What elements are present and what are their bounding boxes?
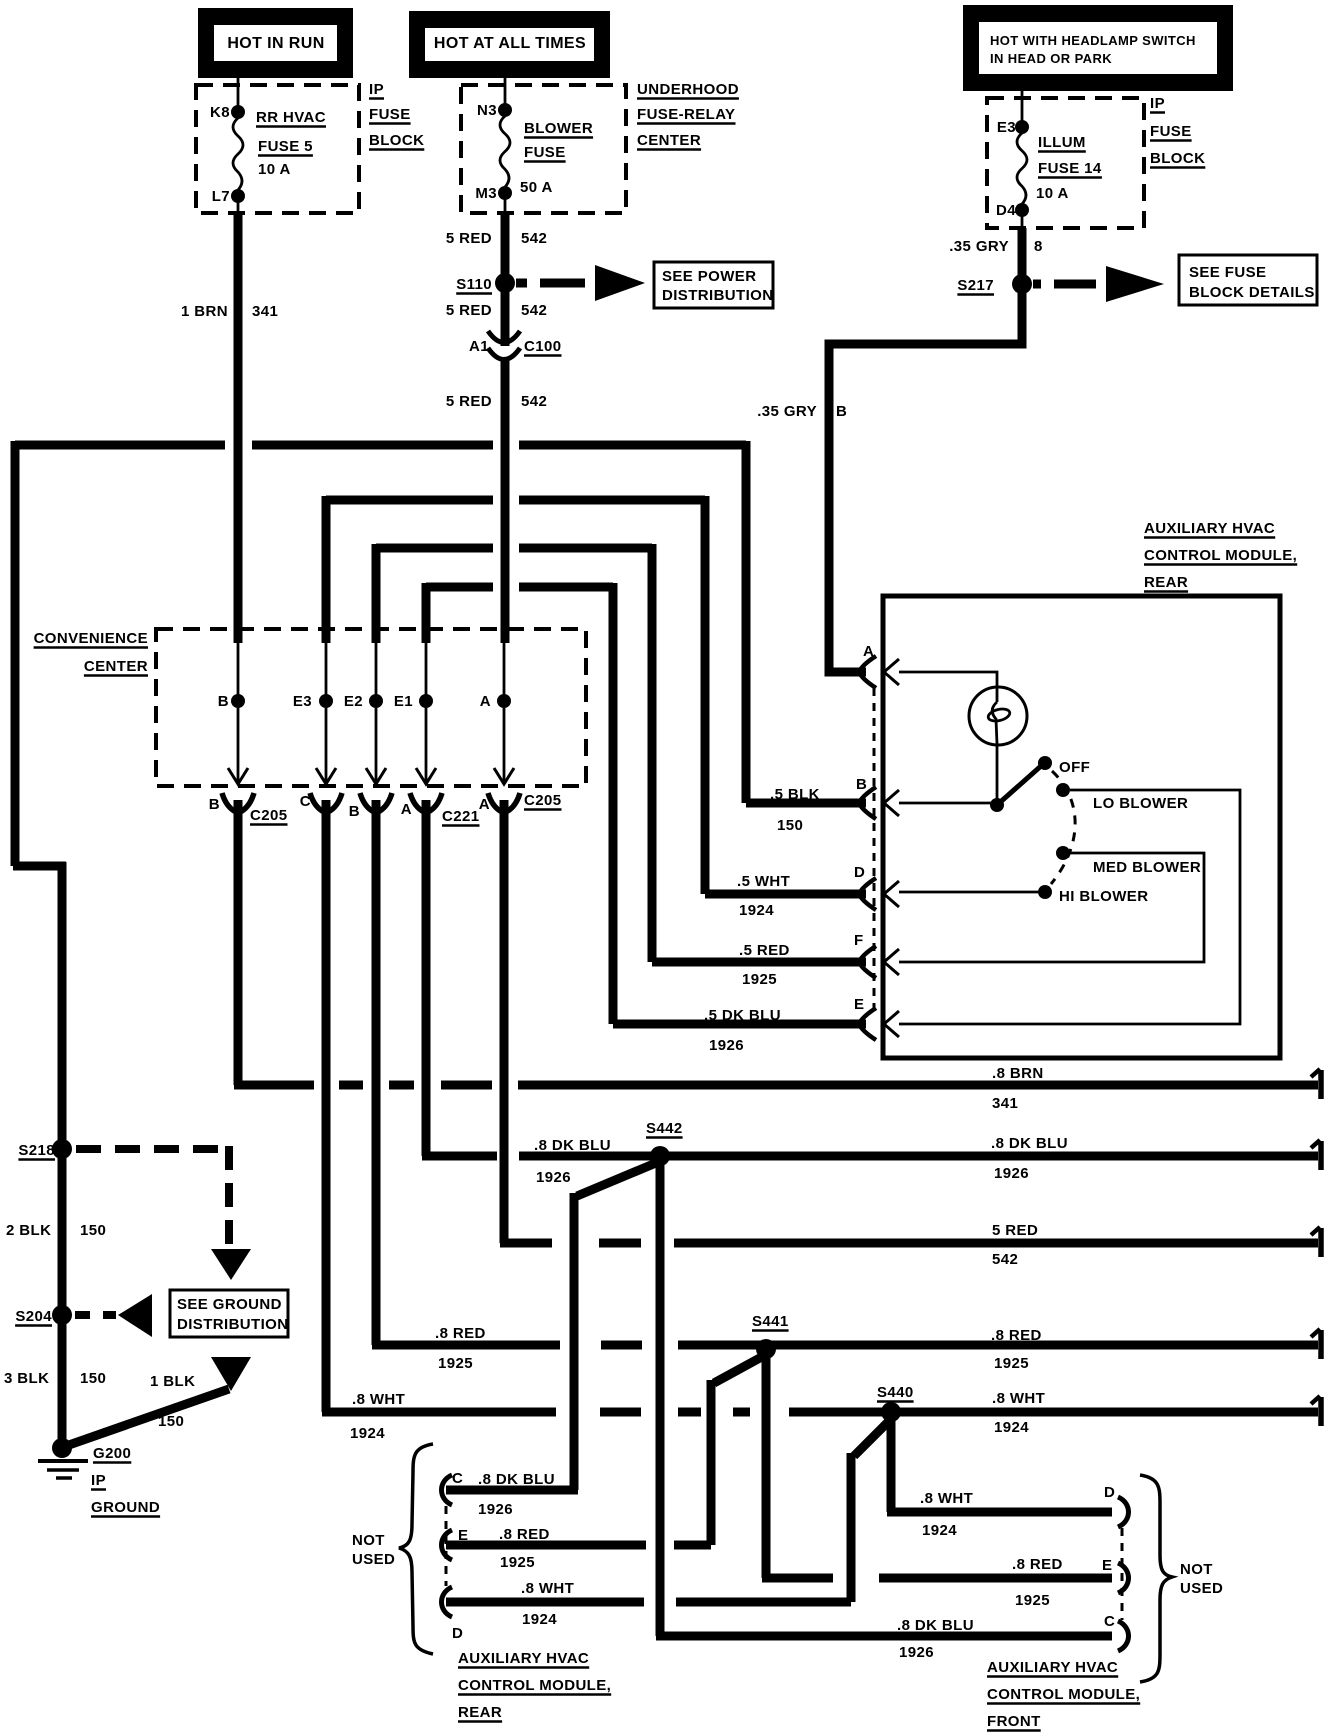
svg-text:.8 DK BLU: .8 DK BLU <box>897 1617 974 1634</box>
svg-text:.8 DK BLU: .8 DK BLU <box>478 1471 555 1488</box>
power box HOT AT ALL TIMES <box>409 11 610 78</box>
dashed wire S217 to arrow <box>1033 280 1041 289</box>
wire stub .5 BLK to pin B <box>746 799 866 808</box>
svg-text:S218: S218 <box>18 1142 55 1159</box>
svg-text:BLOWER: BLOWER <box>524 120 593 137</box>
power box HOT WITH HEADLAMP SWITCH IN HEAD OR PARK <box>963 5 1233 91</box>
svg-text:1925: 1925 <box>1015 1592 1050 1609</box>
svg-text:542: 542 <box>521 302 547 319</box>
svg-text:1 BLK: 1 BLK <box>150 1373 195 1390</box>
svg-text:1925: 1925 <box>742 971 777 988</box>
dashed pin rail <box>873 688 876 1008</box>
svg-text:B: B <box>218 693 229 710</box>
svg-text:B: B <box>836 403 847 420</box>
svg-text:HOT AT ALL TIMES: HOT AT ALL TIMES <box>434 35 586 52</box>
wire right drop to pin B <box>742 441 751 803</box>
svg-text:DISTRIBUTION: DISTRIBUTION <box>662 287 773 304</box>
wire S442 drop to front pin C <box>656 1161 665 1636</box>
wire rear pin C .8 DK BLU <box>446 1486 578 1495</box>
svg-text:E2: E2 <box>344 693 363 710</box>
svg-text:CENTER: CENTER <box>637 132 701 149</box>
wire .8 DK BLU 1926 <box>422 1152 497 1161</box>
svg-text:GROUND: GROUND <box>91 1499 160 1516</box>
svg-text:BLOCK: BLOCK <box>369 132 424 149</box>
svg-text:HOT WITH HEADLAMP SWITCH: HOT WITH HEADLAMP SWITCH <box>990 33 1196 48</box>
wire ground bus horizontal y=445 <box>15 441 225 450</box>
svg-text:.35 GRY: .35 GRY <box>757 403 817 420</box>
svg-text:FUSE: FUSE <box>524 144 566 161</box>
svg-text:ILLUM: ILLUM <box>1038 134 1086 151</box>
wire pin A to bulb <box>899 672 997 702</box>
svg-text:.8 RED: .8 RED <box>1012 1556 1063 1573</box>
svg-text:FUSE 14: FUSE 14 <box>1038 160 1102 177</box>
svg-text:MED BLOWER: MED BLOWER <box>1093 859 1201 876</box>
svg-text:S442: S442 <box>646 1120 683 1137</box>
wire S442 diagonal to x574 <box>577 1160 663 1196</box>
node B in convenience center <box>237 643 240 701</box>
svg-text:USED: USED <box>1180 1580 1223 1597</box>
svg-text:1924: 1924 <box>522 1611 557 1628</box>
svg-text:341: 341 <box>992 1095 1018 1112</box>
svg-text:D: D <box>1104 1484 1115 1501</box>
svg-text:E3: E3 <box>293 693 312 710</box>
wire D4 to box edge <box>1021 210 1024 228</box>
svg-text:A: A <box>863 643 874 660</box>
svg-text:.5 WHT: .5 WHT <box>737 873 790 890</box>
pin M3 <box>498 186 512 200</box>
svg-text:S204: S204 <box>15 1308 52 1325</box>
bulb <box>969 687 1027 745</box>
svg-text:IN HEAD OR PARK: IN HEAD OR PARK <box>990 51 1112 66</box>
pin K8 <box>231 105 245 119</box>
svg-text:CONTROL MODULE,: CONTROL MODULE, <box>987 1686 1140 1703</box>
svg-text:2 BLK: 2 BLK <box>6 1222 51 1239</box>
svg-text:150: 150 <box>158 1413 184 1430</box>
svg-text:.8 BRN: .8 BRN <box>992 1065 1044 1082</box>
svg-text:1925: 1925 <box>500 1554 535 1571</box>
svg-text:REAR: REAR <box>458 1704 502 1721</box>
svg-text:C: C <box>1104 1613 1115 1630</box>
svg-text:E3: E3 <box>997 119 1016 136</box>
svg-text:.5 BLK: .5 BLK <box>770 786 820 803</box>
svg-text:.35 GRY: .35 GRY <box>949 238 1009 255</box>
wire stub .5 RED to pin F <box>652 958 866 967</box>
dashed rear pin rail <box>445 1506 448 1586</box>
wire rear pin D .8 WHT <box>446 1598 644 1607</box>
svg-text:1 BRN: 1 BRN <box>181 303 228 320</box>
arrow to SEE POWER DISTRIBUTION <box>595 265 645 301</box>
front pin D <box>1118 1497 1129 1527</box>
svg-text:S441: S441 <box>752 1313 789 1330</box>
svg-text:150: 150 <box>80 1370 106 1387</box>
pin N3 <box>498 103 512 117</box>
connector C221 pin A <box>410 793 424 812</box>
svg-text:C205: C205 <box>250 807 287 824</box>
splice S110 <box>495 273 515 293</box>
wire A column down <box>422 800 431 1156</box>
svg-text:BLOCK: BLOCK <box>1150 150 1205 167</box>
node A in convenience center <box>503 643 506 701</box>
switch contact HI <box>1038 885 1052 899</box>
svg-text:341: 341 <box>252 303 278 320</box>
svg-text:CENTER: CENTER <box>84 658 148 675</box>
wire S441 diagonal to x711 <box>714 1353 769 1383</box>
switch contact LO <box>1056 783 1070 797</box>
svg-text:1926: 1926 <box>899 1644 934 1661</box>
svg-text:SEE FUSE: SEE FUSE <box>1189 264 1266 281</box>
svg-text:.8 WHT: .8 WHT <box>992 1390 1045 1407</box>
svg-text:A: A <box>480 693 491 710</box>
svg-text:C: C <box>300 793 311 810</box>
connector C100 A1 <box>488 331 520 343</box>
svg-text:BLOCK DETAILS: BLOCK DETAILS <box>1189 284 1315 301</box>
splice S204 <box>52 1305 72 1325</box>
wire LO contact to pin E <box>899 790 1240 1024</box>
wire A C205 column down <box>500 800 509 1243</box>
svg-text:E: E <box>458 1527 468 1544</box>
dashed wire S204 to arrow <box>75 1311 90 1319</box>
svg-text:G200: G200 <box>93 1445 131 1462</box>
fuse box IP FUSE BLOCK (dashed) <box>196 85 359 213</box>
svg-text:N3: N3 <box>477 102 497 119</box>
fuse box IP FUSE BLOCK 2 (dashed) <box>987 98 1144 228</box>
switch pivot junction <box>990 798 1004 812</box>
svg-text:D: D <box>854 864 865 881</box>
svg-text:FUSE: FUSE <box>1150 123 1192 140</box>
wire bulb to switch pivot <box>996 744 999 805</box>
svg-text:1924: 1924 <box>739 902 774 919</box>
wire S440 drop to front pin D <box>887 1416 896 1512</box>
wire .8 RED 1925 long <box>372 1341 560 1350</box>
svg-text:D: D <box>452 1625 463 1642</box>
svg-text:10 A: 10 A <box>258 161 291 178</box>
dashed wire S218 to arrow <box>76 1145 225 1153</box>
wire S440 diagonal to x851 <box>854 1416 894 1456</box>
wire 5 RED top segment <box>501 213 510 346</box>
svg-text:LO BLOWER: LO BLOWER <box>1093 795 1188 812</box>
connector C221 pin B <box>360 793 374 812</box>
wire from HOT WITH HEADLAMP to E3 <box>1021 91 1024 127</box>
svg-text:FRONT: FRONT <box>987 1713 1041 1730</box>
svg-text:CONVENIENCE: CONVENIENCE <box>34 630 148 647</box>
svg-text:5 RED: 5 RED <box>992 1222 1038 1239</box>
svg-text:.8 DK BLU: .8 DK BLU <box>991 1135 1068 1152</box>
svg-text:1925: 1925 <box>438 1355 473 1372</box>
svg-text:.8 WHT: .8 WHT <box>920 1490 973 1507</box>
splice S441 <box>756 1339 776 1359</box>
svg-text:E: E <box>854 996 864 1013</box>
svg-text:USED: USED <box>352 1551 395 1568</box>
svg-text:.8 WHT: .8 WHT <box>352 1391 405 1408</box>
wire .8 WHT 1924 long <box>322 1408 556 1417</box>
svg-text:FUSE 5: FUSE 5 <box>258 138 313 155</box>
svg-text:1926: 1926 <box>536 1169 571 1186</box>
svg-text:FUSE-RELAY: FUSE-RELAY <box>637 106 735 123</box>
wire C column down <box>322 800 331 1412</box>
svg-text:IP: IP <box>369 81 384 98</box>
svg-text:IP: IP <box>1150 95 1165 112</box>
wire 1 BLK 150 diagonal <box>66 1389 229 1446</box>
svg-text:L7: L7 <box>212 188 230 205</box>
svg-text:HOT IN RUN: HOT IN RUN <box>227 35 324 52</box>
svg-text:.8 RED: .8 RED <box>499 1526 550 1543</box>
node E2 in convenience center <box>375 643 378 701</box>
node E3 in convenience center <box>325 643 328 701</box>
svg-text:3 BLK: 3 BLK <box>4 1370 49 1387</box>
wire rear pin E .8 RED <box>446 1541 646 1550</box>
svg-text:.8 DK BLU: .8 DK BLU <box>534 1137 611 1154</box>
svg-text:50 A: 50 A <box>520 179 553 196</box>
wire L7 to box edge <box>237 196 240 213</box>
wire MED contact to pin F <box>899 853 1204 962</box>
module pin D <box>859 878 876 894</box>
callout box SEE POWER DISTRIBUTION <box>654 262 773 308</box>
rear pin C <box>442 1475 453 1505</box>
svg-text:150: 150 <box>80 1222 106 1239</box>
switch travel arc (dashed) <box>1051 771 1075 884</box>
svg-text:FUSE: FUSE <box>369 106 411 123</box>
switch contact OFF <box>1038 756 1052 770</box>
svg-text:AUXILIARY HVAC: AUXILIARY HVAC <box>458 1650 589 1667</box>
dashed front pin rail <box>1121 1528 1124 1620</box>
brace NOT USED front <box>1140 1475 1172 1682</box>
svg-text:S110: S110 <box>456 276 492 293</box>
svg-text:10 A: 10 A <box>1036 185 1069 202</box>
svg-text:.8 RED: .8 RED <box>435 1325 486 1342</box>
svg-text:S440: S440 <box>877 1384 914 1401</box>
wire stub .5 DK BLU to pin E <box>613 1020 866 1029</box>
connector C205 pin A <box>488 793 502 812</box>
splice S440 <box>881 1402 901 1422</box>
module pin A <box>859 656 876 672</box>
power box HOT IN RUN <box>198 8 353 78</box>
arrow left at S204 <box>118 1294 152 1337</box>
wire from HOT IN RUN to K8 <box>237 78 240 112</box>
wire .35 GRY B to module pin A <box>829 280 1022 672</box>
callout box SEE FUSE BLOCK DETAILS <box>1179 255 1317 305</box>
svg-text:150: 150 <box>777 817 803 834</box>
svg-text:M3: M3 <box>475 185 497 202</box>
svg-text:E: E <box>1102 1557 1112 1574</box>
wire 5 RED 542 long <box>500 1239 552 1248</box>
svg-text:C: C <box>452 1470 463 1487</box>
svg-text:A1: A1 <box>469 338 489 355</box>
svg-text:NOT: NOT <box>1180 1561 1213 1578</box>
svg-text:1925: 1925 <box>994 1355 1029 1372</box>
fuse ILLUM FUSE 14 10A <box>1017 133 1027 204</box>
wire HI contact to pin D <box>899 891 1038 894</box>
front pin E <box>1118 1563 1129 1593</box>
svg-text:5 RED: 5 RED <box>446 230 492 247</box>
wire S441 drop to front pin E <box>762 1353 771 1578</box>
svg-text:1926: 1926 <box>994 1165 1029 1182</box>
svg-text:REAR: REAR <box>1144 574 1188 591</box>
connector C205 pin B below convenience <box>222 793 236 812</box>
svg-text:8: 8 <box>1034 238 1043 255</box>
wire .35 GRY vertical from D4 <box>1018 228 1027 284</box>
svg-text:C100: C100 <box>524 338 561 355</box>
wire 1 BRN 341 vertical <box>234 213 243 643</box>
svg-text:542: 542 <box>992 1251 1018 1268</box>
splice S217 <box>1012 274 1032 294</box>
svg-text:AUXILIARY HVAC: AUXILIARY HVAC <box>1144 520 1275 537</box>
svg-text:5 RED: 5 RED <box>446 302 492 319</box>
svg-text:542: 542 <box>521 230 547 247</box>
svg-text:NOT: NOT <box>352 1532 385 1549</box>
svg-text:.8 RED: .8 RED <box>991 1327 1042 1344</box>
brace NOT USED rear <box>399 1444 433 1654</box>
fuse RR HVAC FUSE 5 10A <box>233 118 243 190</box>
svg-text:D4: D4 <box>996 202 1016 219</box>
module pin F <box>859 946 876 962</box>
svg-text:.5 DK BLU: .5 DK BLU <box>704 1007 781 1024</box>
rear pin D <box>442 1587 453 1617</box>
splice S218 <box>52 1139 72 1159</box>
svg-text:CONTROL MODULE,: CONTROL MODULE, <box>1144 547 1297 564</box>
svg-text:B: B <box>349 803 360 820</box>
wire .8 BRN 341 <box>234 1081 314 1090</box>
svg-text:CONTROL MODULE,: CONTROL MODULE, <box>458 1677 611 1694</box>
pin L7 <box>231 189 245 203</box>
svg-text:5 RED: 5 RED <box>446 393 492 410</box>
wire pin B to switch pivot <box>899 802 997 805</box>
node E1 in convenience center <box>425 643 428 701</box>
wire staircase h3 (.5 RED path) <box>376 544 493 553</box>
switch blade to OFF <box>997 766 1041 805</box>
convenience center box (dashed) <box>156 629 586 786</box>
svg-text:RR HVAC: RR HVAC <box>256 109 326 126</box>
splice S442 <box>650 1146 670 1166</box>
svg-text:542: 542 <box>521 393 547 410</box>
svg-text:S217: S217 <box>957 277 994 294</box>
svg-text:.8 WHT: .8 WHT <box>521 1580 574 1597</box>
svg-text:K8: K8 <box>210 104 230 121</box>
svg-text:C221: C221 <box>442 808 479 825</box>
svg-text:E1: E1 <box>394 693 413 710</box>
svg-text:UNDERHOOD: UNDERHOOD <box>637 81 739 98</box>
svg-text:F: F <box>854 932 864 949</box>
callout box SEE GROUND DISTRIBUTION <box>170 1290 288 1337</box>
svg-text:SEE POWER: SEE POWER <box>662 268 756 285</box>
wire from HOT AT ALL TIMES to N3 <box>504 78 507 110</box>
wire stub .5 WHT to pin D <box>705 890 866 899</box>
svg-text:AUXILIARY HVAC: AUXILIARY HVAC <box>987 1659 1118 1676</box>
svg-text:B: B <box>856 776 867 793</box>
arrow down to SEE GROUND DISTRIBUTION <box>211 1249 251 1280</box>
svg-text:SEE GROUND: SEE GROUND <box>177 1296 282 1313</box>
svg-text:.5 RED: .5 RED <box>739 942 790 959</box>
svg-text:DISTRIBUTION: DISTRIBUTION <box>177 1316 288 1333</box>
connector C205 pin C <box>310 793 324 812</box>
svg-text:1926: 1926 <box>709 1037 744 1054</box>
svg-text:A: A <box>479 796 490 813</box>
dashed wire S110 to arrow <box>516 279 527 288</box>
module pin E <box>859 1008 876 1024</box>
arrow down onto 1 BLK <box>211 1357 251 1391</box>
arrow to SEE FUSE BLOCK DETAILS <box>1106 266 1164 302</box>
fuse BLOWER FUSE 50A <box>500 116 510 187</box>
wire B column down <box>234 800 243 1085</box>
module box <box>883 596 1280 1058</box>
pin D4 <box>1015 203 1029 217</box>
pin E3 <box>1015 120 1029 134</box>
svg-text:1926: 1926 <box>478 1501 513 1518</box>
ground G200 <box>52 1438 72 1458</box>
module pin B <box>859 787 876 803</box>
svg-text:1924: 1924 <box>922 1522 957 1539</box>
wire B C221 column down <box>372 800 381 1345</box>
switch contact MED <box>1056 846 1070 860</box>
svg-text:HI BLOWER: HI BLOWER <box>1059 888 1148 905</box>
svg-text:OFF: OFF <box>1059 759 1090 776</box>
svg-text:IP: IP <box>91 1472 106 1489</box>
svg-text:B: B <box>209 796 220 813</box>
svg-text:C205: C205 <box>524 792 561 809</box>
front pin C <box>1118 1621 1129 1651</box>
wire left rail down <box>11 441 20 866</box>
rear pin E <box>442 1530 453 1560</box>
wire staircase h2 (.5 WHT path) <box>326 496 493 505</box>
svg-text:1924: 1924 <box>350 1425 385 1442</box>
wire staircase h4 (.5 DK BLU path) <box>426 583 493 592</box>
fuse box UNDERHOOD FUSE-RELAY CENTER (dashed) <box>461 85 626 213</box>
wire M3 to box edge <box>504 193 507 213</box>
svg-text:1924: 1924 <box>994 1419 1029 1436</box>
svg-text:A: A <box>401 801 412 818</box>
